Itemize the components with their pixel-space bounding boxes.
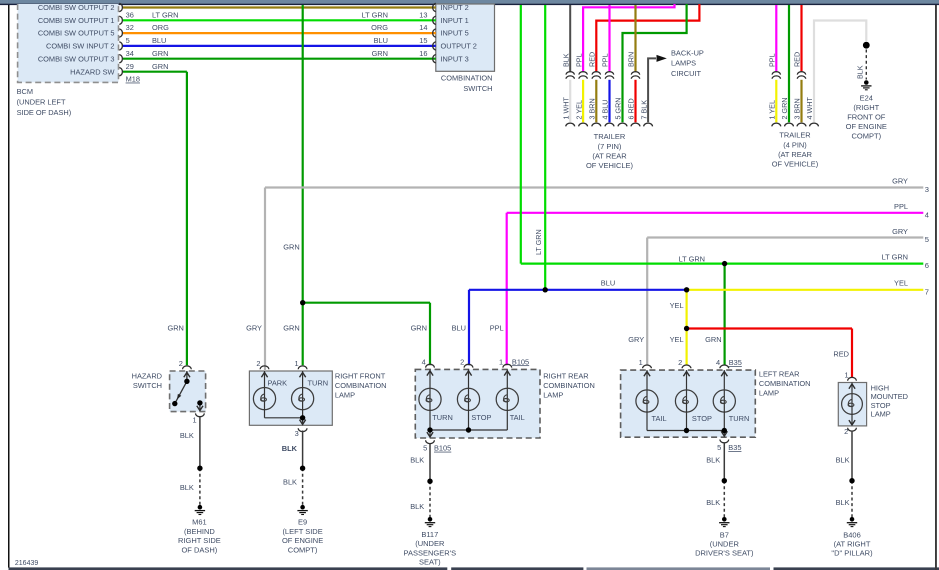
svg-text:BCM: BCM <box>17 87 33 96</box>
svg-text:B105: B105 <box>434 444 451 453</box>
svg-text:3 BRN: 3 BRN <box>793 98 802 119</box>
svg-text:HAZARD SW: HAZARD SW <box>70 67 114 76</box>
svg-text:1: 1 <box>639 358 643 367</box>
svg-text:36: 36 <box>126 10 134 19</box>
svg-text:B7: B7 <box>720 530 729 539</box>
svg-text:STOP: STOP <box>471 413 491 422</box>
svg-text:COMBI SW OUTPUT 5: COMBI SW OUTPUT 5 <box>38 29 115 38</box>
svg-text:MOUNTED: MOUNTED <box>871 392 908 401</box>
svg-text:INPUT 1: INPUT 1 <box>441 16 469 25</box>
svg-text:LT GRN: LT GRN <box>362 10 388 19</box>
svg-text:FRONT OF: FRONT OF <box>847 113 886 122</box>
svg-text:(UNDER LEFT: (UNDER LEFT <box>17 98 66 107</box>
svg-text:PPL: PPL <box>490 324 504 333</box>
svg-text:TURN: TURN <box>729 414 750 423</box>
svg-text:BLK: BLK <box>283 478 297 487</box>
svg-text:GRN: GRN <box>372 49 388 58</box>
svg-text:1 YEL: 1 YEL <box>768 100 777 119</box>
svg-text:2: 2 <box>256 359 260 368</box>
svg-text:2: 2 <box>460 357 464 366</box>
svg-text:(AT REAR: (AT REAR <box>592 151 627 160</box>
svg-text:BLK: BLK <box>836 498 850 507</box>
svg-text:BLU: BLU <box>601 279 615 288</box>
svg-text:RIGHT SIDE: RIGHT SIDE <box>178 536 221 545</box>
svg-text:OUTPUT 2: OUTPUT 2 <box>441 42 477 51</box>
svg-text:COMBI SW OUTPUT 2: COMBI SW OUTPUT 2 <box>38 3 115 12</box>
svg-text:29: 29 <box>126 62 134 71</box>
svg-text:(AT RIGHT: (AT RIGHT <box>834 539 871 548</box>
svg-text:(UNDER: (UNDER <box>415 539 445 548</box>
svg-text:BLK: BLK <box>836 456 850 465</box>
svg-text:E24: E24 <box>860 94 873 103</box>
svg-text:1 WHT: 1 WHT <box>561 97 570 120</box>
svg-text:PPL: PPL <box>574 53 583 67</box>
svg-text:STOP: STOP <box>692 414 712 423</box>
svg-text:B117: B117 <box>421 530 438 539</box>
svg-text:4: 4 <box>716 358 720 367</box>
svg-text:GRY: GRY <box>892 177 908 186</box>
svg-text:TURN: TURN <box>308 379 329 388</box>
svg-text:INPUT 2: INPUT 2 <box>441 3 469 12</box>
svg-text:(7 PIN): (7 PIN) <box>598 142 622 151</box>
svg-text:INPUT 5: INPUT 5 <box>441 29 469 38</box>
svg-text:14: 14 <box>419 23 427 32</box>
svg-text:LT GRN: LT GRN <box>534 229 543 255</box>
svg-text:34: 34 <box>126 49 134 58</box>
svg-text:SWITCH: SWITCH <box>463 84 492 93</box>
svg-text:COMBINATION: COMBINATION <box>543 381 595 390</box>
svg-text:32: 32 <box>126 23 134 32</box>
svg-text:3: 3 <box>925 185 929 194</box>
svg-text:6: 6 <box>925 261 929 270</box>
svg-text:BLK: BLK <box>410 502 424 511</box>
svg-text:BLU: BLU <box>374 36 388 45</box>
svg-text:RED: RED <box>793 52 802 67</box>
svg-text:E9: E9 <box>298 518 307 527</box>
svg-text:(UNDER: (UNDER <box>710 539 740 548</box>
svg-text:COMBINATION: COMBINATION <box>759 379 811 388</box>
svg-text:GRN: GRN <box>283 324 299 333</box>
svg-text:OF ENGINE: OF ENGINE <box>846 122 887 131</box>
svg-text:(4 PIN): (4 PIN) <box>783 140 806 149</box>
svg-text:COMPT): COMPT) <box>288 545 318 554</box>
svg-text:RIGHT FRONT: RIGHT FRONT <box>335 371 386 380</box>
svg-text:PPL: PPL <box>768 53 777 67</box>
svg-text:PARK: PARK <box>268 379 288 388</box>
svg-text:"D" PILLAR): "D" PILLAR) <box>831 549 873 558</box>
svg-text:ORG: ORG <box>371 23 388 32</box>
svg-text:2: 2 <box>179 359 183 368</box>
svg-text:5: 5 <box>925 235 929 244</box>
svg-text:6 RED: 6 RED <box>627 98 636 119</box>
svg-text:BACK-UP: BACK-UP <box>671 48 704 57</box>
svg-text:RED: RED <box>833 350 849 359</box>
svg-text:(RIGHT: (RIGHT <box>853 103 879 112</box>
svg-text:13: 13 <box>419 10 427 19</box>
svg-text:RED: RED <box>588 52 597 67</box>
svg-text:LT GRN: LT GRN <box>679 254 705 263</box>
svg-text:LEFT REAR: LEFT REAR <box>759 369 800 378</box>
svg-text:PPL: PPL <box>601 53 610 67</box>
svg-text:GRY: GRY <box>892 227 908 236</box>
svg-text:LAMPS: LAMPS <box>671 59 696 68</box>
svg-text:TRAILER: TRAILER <box>779 131 810 140</box>
svg-text:3: 3 <box>295 429 299 438</box>
svg-text:BLU: BLU <box>452 324 466 333</box>
svg-text:TRAILER: TRAILER <box>594 132 626 141</box>
svg-text:TURN: TURN <box>432 413 453 422</box>
svg-text:B35: B35 <box>728 443 741 452</box>
svg-text:GRN: GRN <box>705 335 721 344</box>
svg-text:SEAT): SEAT) <box>419 558 441 567</box>
svg-text:4: 4 <box>422 357 426 366</box>
svg-text:YEL: YEL <box>670 335 684 344</box>
svg-text:7: 7 <box>925 287 929 296</box>
svg-text:BLU: BLU <box>152 36 166 45</box>
svg-text:COMBINATION: COMBINATION <box>441 74 493 83</box>
svg-text:TAIL: TAIL <box>652 414 667 423</box>
svg-text:LT GRN: LT GRN <box>152 10 178 19</box>
svg-text:LT GRN: LT GRN <box>882 253 908 262</box>
svg-text:YEL: YEL <box>670 301 684 310</box>
svg-text:GRN: GRN <box>283 243 299 252</box>
svg-text:(AT REAR: (AT REAR <box>778 150 812 159</box>
svg-text:YEL: YEL <box>894 278 908 287</box>
svg-text:COMBI SW OUTPUT 3: COMBI SW OUTPUT 3 <box>38 54 115 63</box>
svg-text:1: 1 <box>499 357 503 366</box>
svg-text:GRN: GRN <box>152 62 168 71</box>
svg-text:BLK: BLK <box>410 455 424 464</box>
svg-text:4 WHT: 4 WHT <box>805 97 814 120</box>
svg-text:LAMP: LAMP <box>759 388 779 397</box>
svg-text:SWITCH: SWITCH <box>133 381 162 390</box>
svg-text:5: 5 <box>717 443 721 452</box>
svg-text:SIDE OF DASH): SIDE OF DASH) <box>17 108 72 117</box>
svg-text:OF ENGINE: OF ENGINE <box>282 536 323 545</box>
svg-text:3 BRN: 3 BRN <box>588 98 597 119</box>
svg-text:COMPT): COMPT) <box>852 132 882 141</box>
svg-text:4 BLU: 4 BLU <box>601 100 610 120</box>
svg-text:DRIVER'S SEAT): DRIVER'S SEAT) <box>695 549 754 558</box>
svg-text:OF VEHICLE): OF VEHICLE) <box>586 161 634 170</box>
svg-text:COMBINATION: COMBINATION <box>335 381 387 390</box>
svg-text:2: 2 <box>844 427 848 436</box>
svg-text:RIGHT REAR: RIGHT REAR <box>543 371 588 380</box>
svg-text:2 GRN: 2 GRN <box>780 98 789 120</box>
svg-text:(LEFT SIDE: (LEFT SIDE <box>282 527 322 536</box>
svg-text:4: 4 <box>925 210 929 219</box>
svg-text:BLK: BLK <box>856 65 865 79</box>
svg-text:M61: M61 <box>192 518 207 527</box>
svg-text:GRN: GRN <box>411 324 427 333</box>
svg-text:(BEHIND: (BEHIND <box>184 527 215 536</box>
svg-text:ORG: ORG <box>152 23 169 32</box>
svg-text:TAIL: TAIL <box>510 413 525 422</box>
svg-text:INPUT 3: INPUT 3 <box>441 54 469 63</box>
svg-text:OF DASH): OF DASH) <box>181 545 217 554</box>
svg-text:GRN: GRN <box>152 49 168 58</box>
svg-text:COMBI SW OUTPUT 1: COMBI SW OUTPUT 1 <box>38 16 115 25</box>
svg-text:HAZARD: HAZARD <box>132 371 162 380</box>
svg-text:COMBI SW INPUT 2: COMBI SW INPUT 2 <box>46 42 114 51</box>
svg-text:BLK: BLK <box>282 444 298 453</box>
svg-text:1: 1 <box>192 415 196 424</box>
svg-text:BLK: BLK <box>180 431 194 440</box>
svg-text:OF VEHICLE): OF VEHICLE) <box>772 160 818 169</box>
svg-text:M18: M18 <box>126 75 140 84</box>
svg-text:BLK: BLK <box>561 53 570 67</box>
svg-text:5 GRN: 5 GRN <box>614 98 623 120</box>
svg-text:2 YEL: 2 YEL <box>574 100 583 119</box>
svg-text:B105: B105 <box>512 357 529 366</box>
svg-text:7 BLK: 7 BLK <box>639 100 648 120</box>
svg-text:PASSENGER'S: PASSENGER'S <box>404 548 457 557</box>
svg-text:2: 2 <box>678 358 682 367</box>
svg-text:BLK: BLK <box>180 483 194 492</box>
svg-text:B35: B35 <box>729 358 742 367</box>
svg-text:B406: B406 <box>843 530 861 539</box>
svg-text:PPL: PPL <box>894 202 908 211</box>
svg-text:HIGH: HIGH <box>871 383 889 392</box>
svg-text:CIRCUIT: CIRCUIT <box>671 69 701 78</box>
svg-text:BRN: BRN <box>627 52 636 67</box>
svg-text:BLK: BLK <box>706 456 720 465</box>
svg-text:1: 1 <box>844 370 848 379</box>
svg-text:STOP: STOP <box>871 401 891 410</box>
svg-text:BLK: BLK <box>706 498 720 507</box>
svg-text:GRN: GRN <box>167 324 183 333</box>
svg-text:216439: 216439 <box>15 560 38 567</box>
svg-text:LAMP: LAMP <box>543 390 563 399</box>
svg-text:LAMP: LAMP <box>335 390 355 399</box>
svg-text:16: 16 <box>419 49 427 58</box>
svg-text:GRY: GRY <box>246 324 262 333</box>
svg-text:15: 15 <box>419 36 427 45</box>
svg-text:LAMP: LAMP <box>871 410 891 419</box>
svg-text:GRY: GRY <box>628 335 644 344</box>
svg-text:1: 1 <box>294 359 298 368</box>
svg-text:5: 5 <box>423 444 427 453</box>
svg-text:5: 5 <box>126 36 130 45</box>
